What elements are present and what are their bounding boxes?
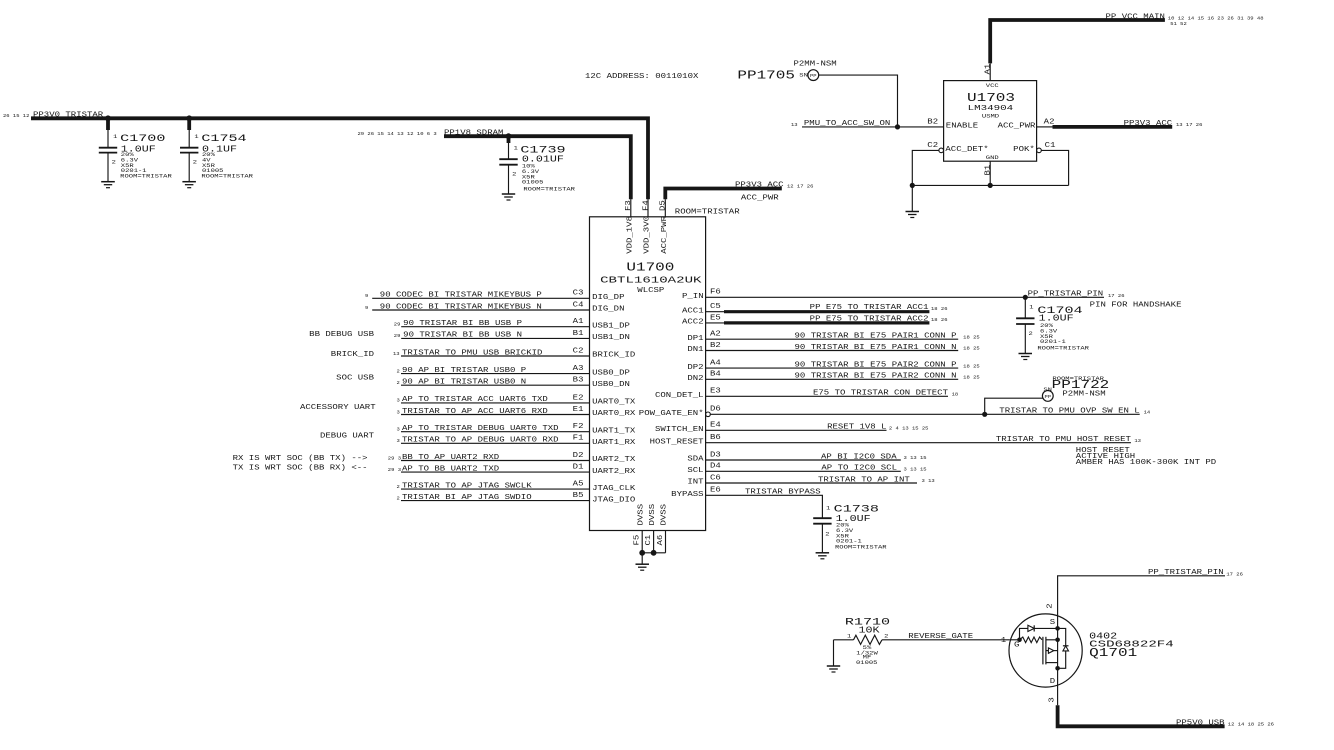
svg-text:E1: E1 [573,406,585,414]
capacitor C1704 symbol [1024,297,1026,318]
svg-text:VDD_1V8: VDD_1V8 [626,216,634,254]
svg-text:C1: C1 [645,534,653,546]
svg-text:U1700: U1700 [626,260,674,274]
svg-text:01005: 01005 [856,659,878,666]
junction Q1701 gate [1017,638,1022,643]
svg-text:13: 13 [791,122,798,128]
svg-text:P_IN: P_IN [682,293,704,301]
transistor Q1701 body circle [1009,614,1082,687]
wire PP3V3_ACC bus (D5) [665,189,782,200]
wire TRISTAR_TO_AP_DEBUG_UART0_RXD [401,442,590,444]
svg-text:BRICK_ID: BRICK_ID [331,351,375,359]
junction DVSS/F5 [639,550,645,556]
svg-text:14: 14 [1144,410,1151,416]
svg-text:B4: B4 [710,371,722,379]
svg-text:3: 3 [397,427,400,433]
svg-text:90 TRISTAR BI E75 PAIR1 CONN N: 90 TRISTAR BI E75 PAIR1 CONN N [795,344,957,352]
wire PP3V3_ACC bus (A2) [1053,125,1173,129]
svg-text:D4: D4 [710,463,722,471]
svg-text:ACC_PWR: ACC_PWR [661,215,669,254]
svg-text:RESET 1V8 L: RESET 1V8 L [827,424,886,432]
svg-text:UART2_RX: UART2_RX [592,468,636,476]
Q1701 body diode branch [1058,628,1066,645]
svg-text:REVERSE_GATE: REVERSE_GATE [908,633,973,641]
svg-text:3 13 15: 3 13 15 [904,467,927,473]
svg-text:F6: F6 [710,289,721,297]
wire AP_TO_TRISTAR_DEBUG_UART0_TXD [401,431,590,433]
svg-text:F2: F2 [573,423,584,431]
svg-text:29 26 15 14 13 12 10 6 3: 29 26 15 14 13 12 10 6 3 [358,131,437,137]
wire U1703 B1 stub [989,161,991,185]
svg-text:WLCSP: WLCSP [637,287,664,295]
wire 90_AP_BI_TRISTAR_USB0_N [401,384,590,386]
svg-text:DVSS: DVSS [661,503,669,525]
svg-text:PP E75 TO TRISTAR ACC2: PP E75 TO TRISTAR ACC2 [810,315,929,323]
svg-text:2: 2 [1029,330,1033,337]
svg-text:PP1705: PP1705 [737,68,795,82]
Q1701 internal gate resistor [1020,637,1043,643]
wire PP_E75_TO_TRISTAR_ACC2 [724,321,929,324]
svg-text:26 15 12: 26 15 12 [3,113,30,119]
svg-text:P2MM-NSM: P2MM-NSM [794,60,837,68]
wire ACC2 stub [706,322,724,324]
svg-text:ROOM=TRISTAR: ROOM=TRISTAR [1037,345,1090,352]
svg-text:UART0_RX: UART0_RX [592,410,636,418]
svg-text:2: 2 [397,368,400,374]
svg-text:TRISTAR TO AP INT: TRISTAR TO AP INT [818,476,911,484]
svg-text:E4: E4 [710,422,722,430]
svg-text:AMBER HAS 100K-300K INT PD: AMBER HAS 100K-300K INT PD [1076,459,1217,467]
svg-text:29 3: 29 3 [388,455,401,461]
ground U1700 DVSS [636,563,650,565]
svg-text:UART1_TX: UART1_TX [592,427,636,435]
svg-text:RX IS WRT SOC (BB TX) -->: RX IS WRT SOC (BB TX) --> [233,455,368,463]
wire RESET_1V8_L [706,429,887,431]
svg-text:ACC_DET*: ACC_DET* [945,146,988,154]
svg-text:ROOM=TRISTAR: ROOM=TRISTAR [675,209,741,217]
svg-text:C2: C2 [573,347,584,355]
ground C1700 [101,181,115,183]
svg-text:DIG_DP: DIG_DP [592,294,624,302]
svg-text:CON_DET_L: CON_DET_L [655,392,704,400]
svg-text:10K: 10K [859,624,880,635]
U1700 pin D6 bubble [706,412,711,417]
svg-text:17 26: 17 26 [1108,293,1125,299]
wire D5 pin stub thin [664,199,666,217]
svg-text:DIG_DN: DIG_DN [592,306,624,314]
wire F3 pin stub thin [630,199,632,217]
wire TRISTAR_TO_PMU_USB_BRICKID [401,355,590,357]
svg-text:B3: B3 [573,377,584,385]
wire PP1705 to ENABLE net [819,75,898,127]
svg-text:F4: F4 [642,199,650,211]
svg-text:29: 29 [394,333,401,339]
svg-text:18 25: 18 25 [963,363,980,369]
svg-text:P2MM-NSM: P2MM-NSM [1062,390,1105,398]
ground C1738 [816,552,830,554]
svg-text:90 TRISTAR BI E75 PAIR2 CONN N: 90 TRISTAR BI E75 PAIR2 CONN N [795,373,957,381]
svg-text:F5: F5 [634,535,642,546]
svg-text:18 25: 18 25 [963,375,980,381]
svg-text:JTAG_DIO: JTAG_DIO [592,496,636,504]
svg-text:C6: C6 [710,474,721,482]
svg-text:ROOM=TRISTAR: ROOM=TRISTAR [835,543,888,550]
ground C1704 [1019,353,1033,355]
svg-text:ACC_PWR: ACC_PWR [998,123,1037,131]
junction gnd/C2 [910,183,915,188]
svg-text:D: D [1050,678,1056,686]
wire PP_VCC_MAIN bus [990,20,1165,63]
resistor R1710 symbol [834,639,854,641]
svg-text:2: 2 [512,171,516,178]
svg-text:E6: E6 [710,487,721,495]
testpoint PP1722 symbol [1042,391,1053,402]
svg-text:SWITCH_EN: SWITCH_EN [655,426,704,434]
svg-text:BB DEBUG USB: BB DEBUG USB [309,331,375,339]
svg-text:A5: A5 [573,481,584,489]
wire DVSS ground stem [641,553,643,564]
svg-text:SOC USB: SOC USB [336,374,375,382]
svg-text:VDD_3V0: VDD_3V0 [644,216,652,254]
svg-text:D5: D5 [660,200,668,211]
svg-text:29 3: 29 3 [388,467,401,473]
svg-text:B5: B5 [573,492,584,500]
svg-text:TRISTAR BYPASS: TRISTAR BYPASS [745,489,821,497]
svg-text:A2: A2 [710,331,721,339]
svg-text:TRISTAR TO PMU HOST RESET: TRISTAR TO PMU HOST RESET [996,436,1132,444]
svg-text:USB1_DP: USB1_DP [592,322,630,330]
svg-text:VCC: VCC [986,82,1000,89]
capacitor C1738 symbol [813,517,831,519]
svg-text:Q1701: Q1701 [1089,646,1137,660]
wire 90_TRISTAR_BI_E75_PAIR1_CONN_N [706,350,959,352]
svg-text:AP BI I2C0 SDA: AP BI I2C0 SDA [821,453,897,461]
svg-text:E2: E2 [573,394,584,402]
svg-text:LM34904: LM34904 [968,105,1014,113]
testpoint PP1705 symbol [808,70,819,81]
svg-text:12 14 18 25 26: 12 14 18 25 26 [1228,722,1274,728]
svg-text:C5: C5 [710,303,721,311]
wire F4 pin stub thin [647,199,649,217]
svg-text:C4: C4 [573,301,585,309]
junction PP3V0/C1700 [105,115,111,121]
svg-text:USB0_DP: USB0_DP [592,369,630,377]
wire BB_TO_AP_UART2_RXD [401,460,590,462]
svg-text:E3: E3 [710,388,721,396]
capacitor C1739 symbol [507,136,511,143]
svg-text:UART1_RX: UART1_RX [592,439,636,447]
svg-text:C1: C1 [1045,142,1057,150]
ground U1703 [906,211,920,213]
wire 90_TRISTAR_BI_BB_USB_N [401,337,589,339]
svg-text:ACC1: ACC1 [682,307,704,315]
U1703 pin C1 bubble [1037,148,1042,153]
svg-text:AP TO I2C0 SCL: AP TO I2C0 SCL [821,465,897,473]
svg-text:A1: A1 [985,63,993,75]
junction PP3V0/C1754 [186,115,192,121]
Q1701 gate-source diode branch [1020,628,1028,639]
svg-text:F1: F1 [573,435,585,443]
svg-text:1: 1 [1001,637,1007,645]
svg-text:B2: B2 [927,118,938,126]
svg-text:D2: D2 [573,452,584,460]
wire 90_TRISTAR_BI_E75_PAIR2_CONN_P [706,367,959,369]
op-amp U1703 body [944,81,1037,162]
svg-text:ACC2: ACC2 [682,319,704,327]
svg-text:POW_GATE_EN*: POW_GATE_EN* [639,410,704,418]
svg-text:SN: SN [799,71,808,78]
wire TRISTAR_BI_AP_JTAG_SWDIO [401,500,590,502]
wire AP_TO_TRISTAR_ACC_UART6_TXD [401,402,590,404]
svg-text:13 17 26: 13 17 26 [1176,122,1203,128]
svg-text:PP: PP [810,73,817,79]
svg-text:ACCESSORY UART: ACCESSORY UART [300,404,376,412]
wire AP_BI_I2C0_SDA [706,459,901,461]
U1703 pin C2 bubble [939,148,944,153]
svg-text:TRISTAR TO PMU OVP SW EN L: TRISTAR TO PMU OVP SW EN L [999,408,1139,416]
svg-text:51 52: 51 52 [1170,21,1187,27]
svg-text:18 25: 18 25 [963,334,980,340]
svg-text:S: S [1050,619,1056,627]
svg-text:B2: B2 [710,342,721,350]
svg-text:G: G [1014,642,1019,650]
junction PP_TRISTAR_PIN/C1704 [1023,295,1028,300]
svg-text:ENABLE: ENABLE [946,123,978,131]
svg-text:DP1: DP1 [687,335,704,343]
svg-text:2: 2 [1047,603,1055,608]
svg-text:12 17 26: 12 17 26 [787,183,814,189]
svg-text:2: 2 [193,159,197,166]
wire DVSS C1 stub [653,531,655,553]
junction Q1701 bottom-lead [1055,666,1060,671]
svg-text:U1703: U1703 [967,91,1015,105]
ground C1754 [182,181,196,183]
wire PP3V0_TRISTAR bus [31,118,648,199]
svg-text:D3: D3 [710,451,721,459]
svg-text:13: 13 [393,351,400,357]
svg-text:PP: PP [1045,394,1052,400]
svg-text:UART0_TX: UART0_TX [592,399,636,407]
ground R1710 [827,665,840,667]
svg-text:CBTL1610A2UK: CBTL1610A2UK [600,274,702,285]
svg-text:ACC_PWR: ACC_PWR [741,194,780,202]
svg-text:ROOM=TRISTAR: ROOM=TRISTAR [201,173,254,180]
svg-text:DP2: DP2 [687,364,703,372]
junction OVP/PP1722 [982,412,987,417]
svg-text:10 12 14 15 16 23 26 31 39 48: 10 12 14 15 16 23 26 31 39 48 [1168,15,1264,21]
wire C2 to ground net [912,150,939,185]
svg-text:USMD: USMD [982,113,1000,120]
svg-text:PP5V0 USB: PP5V0 USB [1176,720,1225,728]
svg-text:18 26: 18 26 [931,317,948,323]
svg-text:12C ADDRESS: 0011010X: 12C ADDRESS: 0011010X [585,73,699,81]
junction Q1701 gate-lead [1055,638,1060,643]
wire TRISTAR_TO_PMU_HOST_RESET [706,442,1131,444]
wire DVSS F5 stub [641,531,643,553]
svg-text:3: 3 [397,398,400,404]
svg-text:3: 3 [397,438,400,444]
svg-text:USB1_DN: USB1_DN [592,334,630,342]
wire ACC1 stub [706,311,724,313]
svg-text:PP_TRISTAR_PIN: PP_TRISTAR_PIN [1028,291,1104,299]
svg-text:3 13 15: 3 13 15 [904,455,927,461]
svg-text:2: 2 [884,633,888,640]
wire R1710 to ground [833,640,835,666]
svg-text:2: 2 [397,484,400,490]
svg-text:DN1: DN1 [687,346,704,354]
svg-text:POK*: POK* [1013,146,1035,154]
junction PP1705/PMU_TO_ACC_SW_ON [895,124,900,129]
svg-text:TX IS WRT SOC (BB RX) <--: TX IS WRT SOC (BB RX) <-- [233,464,368,472]
wire PP_E75_TO_TRISTAR_ACC1 [724,310,929,313]
Q1701 MOSFET symbol [1042,637,1044,665]
wire PMU_TO_ACC_SW_ON [802,126,944,128]
svg-text:ROOM=TRISTAR: ROOM=TRISTAR [523,186,576,193]
svg-text:C2: C2 [927,142,938,150]
wire TRISTAR_TO_AP_ACC_UART6_RXD [401,414,590,416]
svg-text:9: 9 [365,305,368,311]
junction DVSS/C1 [651,550,657,556]
svg-text:2: 2 [112,159,116,166]
wire 90_TRISTAR_BI_E75_PAIR1_CONN_P [706,338,959,340]
wire TRISTAR_TO_PMU_OVP_SW_EN_L [710,413,1139,415]
svg-text:DVSS: DVSS [649,503,657,525]
svg-text:3: 3 [1049,697,1057,702]
wire AP_TO_BB_UART2_TXD [401,471,590,473]
svg-text:90 TRISTAR BI E75 PAIR1 CONN P: 90 TRISTAR BI E75 PAIR1 CONN P [795,333,957,341]
svg-text:2 4 13 15 25: 2 4 13 15 25 [889,426,929,432]
wire ground stem U1703 [911,185,913,211]
wire U1703 ground bus [912,184,1068,186]
wire Q1701 drain thick [1058,705,1225,726]
wire AP_TO_I2C0_SCL [706,470,901,472]
svg-text:PIN FOR HANDSHAKE: PIN FOR HANDSHAKE [1090,302,1182,310]
svg-text:2: 2 [825,531,829,538]
svg-text:A3: A3 [573,365,584,373]
capacitor C1700 symbol [106,118,110,130]
svg-text:D6: D6 [710,406,721,414]
wire U1703 A2 stub [1037,126,1053,128]
svg-text:B1: B1 [573,330,585,338]
ground C1739 [502,193,515,195]
svg-text:GND: GND [986,154,1000,161]
svg-text:USB0_DN: USB0_DN [592,381,630,389]
wire PP1V8_SDRAM bus [444,136,631,199]
svg-text:18 25: 18 25 [963,346,980,352]
wire DVSS A6 stub [665,531,667,553]
svg-text:E5: E5 [710,314,721,322]
junction PP1V8/C1739 [506,133,512,139]
wire 90_AP_BI_TRISTAR_USB0_P [401,373,590,375]
svg-text:2: 2 [397,495,400,501]
svg-text:2: 2 [397,380,400,386]
svg-text:B6: B6 [710,434,721,442]
svg-text:E75 TO TRISTAR CON DETECT: E75 TO TRISTAR CON DETECT [813,390,949,398]
svg-text:ROOM=TRISTAR: ROOM=TRISTAR [120,173,173,180]
svg-text:SDA: SDA [687,456,704,464]
svg-text:A4: A4 [710,360,722,368]
wire DVSS join [642,552,665,554]
svg-text:3: 3 [397,409,400,415]
svg-text:DN2: DN2 [687,375,703,383]
svg-text:UART2_TX: UART2_TX [592,456,636,464]
capacitor C1754 symbol [187,118,191,130]
svg-text:DEBUG UART: DEBUG UART [320,433,375,441]
svg-text:SCL: SCL [687,467,703,475]
svg-text:9: 9 [365,293,368,299]
svg-text:17 26: 17 26 [1226,571,1243,577]
svg-text:HOST_RESET: HOST_RESET [650,438,705,446]
junction Q1701 source-top [1055,626,1060,631]
wire TRISTAR_TO_AP_INT [706,482,917,484]
svg-text:13: 13 [1134,438,1141,444]
wire E75_TO_TRISTAR_CON_DETECT [706,395,948,397]
wire 90_TRISTAR_BI_BB_USB_P [401,326,589,328]
svg-text:A1: A1 [573,318,585,326]
svg-text:DVSS: DVSS [637,503,645,525]
svg-text:90 TRISTAR BI E75 PAIR2 CONN P: 90 TRISTAR BI E75 PAIR2 CONN P [795,361,957,369]
wire U1703 pin A1 stub [989,63,991,80]
wire 90_CODEC_BI_TRISTAR_MIKEYBUS_P [372,297,589,299]
svg-text:A6: A6 [657,535,665,546]
svg-text:29: 29 [394,322,401,328]
wire PP_TRISTAR_PIN to Q1701 source [1058,576,1225,705]
Q1701 gate node wire [1009,639,1019,641]
wire PP_TRISTAR_PIN (F6) [706,296,1104,298]
svg-text:JTAG_CLK: JTAG_CLK [592,485,636,493]
svg-text:BYPASS: BYPASS [671,491,704,499]
svg-text:3 13: 3 13 [922,478,935,484]
wire C1 to ground net [1041,150,1068,185]
wire TRISTAR_BYPASS [706,495,823,518]
svg-text:18: 18 [952,392,959,398]
svg-text:B1: B1 [985,164,993,176]
wire TRISTAR_TO_AP_JTAG_SWCLK [401,488,590,490]
svg-text:D1: D1 [573,464,585,472]
svg-text:BRICK_ID: BRICK_ID [592,352,636,360]
svg-text:F3: F3 [625,200,633,211]
op-amp U1700 body [590,217,706,531]
wire 90_TRISTAR_BI_E75_PAIR2_CONN_N [706,378,959,380]
svg-text:PP E75 TO TRISTAR ACC1: PP E75 TO TRISTAR ACC1 [810,304,930,312]
svg-text:C3: C3 [573,290,584,298]
svg-text:INT: INT [687,479,704,487]
wire PP1722 to OVP net [985,398,1043,414]
wire 90_CODEC_BI_TRISTAR_MIKEYBUS_N [372,309,589,311]
svg-text:18 26: 18 26 [931,306,948,312]
junction gnd/B1 [988,183,993,188]
